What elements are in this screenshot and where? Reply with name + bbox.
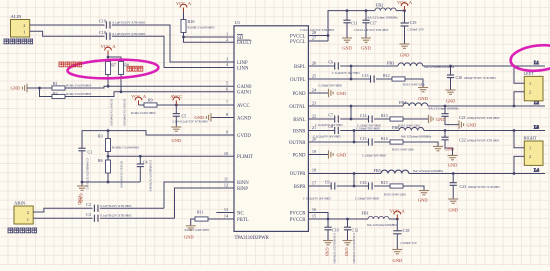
wire RINN xyxy=(164,182,234,208)
ground GND (R12) xyxy=(418,88,428,102)
wire FB5 to L4 xyxy=(409,173,545,175)
svg-text:PVCCL: PVCCL xyxy=(290,34,306,39)
ground GND (PGND19) xyxy=(329,150,347,158)
svg-text:C5: C5 xyxy=(182,114,187,119)
svg-text:VCC_A: VCC_A xyxy=(390,208,406,213)
ground GND (AGND) xyxy=(194,113,211,121)
wire PGND pin24 xyxy=(308,92,328,94)
svg-text:0.1uF/N/25V X7R 0805: 0.1uF/N/25V X7R 0805 xyxy=(113,21,146,25)
svg-text:0.1uF/N/25V X7R 0805: 0.1uF/N/25V X7R 0805 xyxy=(101,204,132,208)
ground GND (C11) xyxy=(342,38,352,50)
svg-text:VCC_A: VCC_A xyxy=(131,94,147,99)
svg-text:RINN: RINN xyxy=(237,181,249,186)
capacitor C8 xyxy=(313,124,341,138)
svg-text:19: 19 xyxy=(312,149,316,154)
wire R13 to ground xyxy=(403,118,429,120)
svg-text:C18: C18 xyxy=(99,30,106,35)
resistor R8 xyxy=(119,62,129,75)
wire PGND pin19 xyxy=(308,154,328,156)
svg-text:6: 6 xyxy=(226,86,228,91)
svg-text:BSNR: BSNR xyxy=(293,129,306,134)
resistor R13 xyxy=(374,113,420,127)
capacitor C17 xyxy=(354,11,389,38)
svg-text:TPA3110D2PWR: TPA3110D2PWR xyxy=(235,236,270,241)
wire FB4 to L2 xyxy=(428,105,545,107)
annotation red text default-no-solder (CJK) xyxy=(59,62,82,67)
ground GND (R14) xyxy=(433,147,454,152)
wire BSPL pin26 to C6 xyxy=(308,65,334,67)
svg-text:LINP: LINP xyxy=(237,61,248,66)
svg-text:FB2: FB2 xyxy=(376,3,383,8)
ground GND (R15) xyxy=(418,191,429,203)
wire R14 to ground xyxy=(403,142,438,147)
svg-text:GND: GND xyxy=(393,258,403,263)
svg-text:C104 0.1uF/25V X7R 0805: C104 0.1uF/25V X7R 0805 xyxy=(354,28,389,32)
wire C3 to RINP drop xyxy=(100,217,175,219)
capacitor C12 xyxy=(344,219,358,241)
svg-text:R100K/1%10W0805: R100K/1%10W0805 xyxy=(188,26,215,30)
svg-text:R10K/1%4W 0805: R10K/1%4W 0805 xyxy=(131,111,156,115)
svg-text:GND: GND xyxy=(418,198,428,203)
wire ALIN pin2 to C19 xyxy=(30,24,105,26)
svg-text:OUTPR: OUTPR xyxy=(290,172,307,177)
svg-text:18: 18 xyxy=(312,168,316,173)
ferrite bead FB4 xyxy=(399,100,459,110)
svg-text:R10K/1%4W 0805: R10K/1%4W 0805 xyxy=(185,228,210,232)
wire R1 to GAIN0 xyxy=(65,86,234,88)
wire C2 to RINN drop xyxy=(100,207,164,209)
capacitor C7 xyxy=(315,113,343,127)
ferrite bead FB1 xyxy=(362,211,398,227)
ground GND (bottom rail) xyxy=(77,182,87,203)
ferrite bead FB6 xyxy=(392,125,432,138)
wire BSNR-OUTNR vertical xyxy=(353,131,355,143)
wire BSPL-OUTPL vertical xyxy=(350,66,352,79)
svg-text:C104MB/25V/X7R0805: C104MB/25V/X7R0805 xyxy=(352,233,356,264)
power VCC_A (above R10) xyxy=(176,1,192,12)
capacitor C5 xyxy=(173,105,209,127)
svg-text:FB6: FB6 xyxy=(392,125,399,130)
svg-text:C12: C12 xyxy=(352,227,359,232)
wire OUTNL pin23 to FB4 xyxy=(308,105,403,107)
resistor R10 xyxy=(181,19,215,33)
capacitor C21 xyxy=(441,106,499,125)
ground GND (C18) xyxy=(392,250,402,264)
svg-text:GND: GND xyxy=(172,138,182,143)
pin numbers U1 left xyxy=(224,32,229,219)
svg-text:GND: GND xyxy=(445,147,455,152)
capacitor C2 xyxy=(86,202,132,212)
svg-text:C15: C15 xyxy=(360,136,367,141)
wire FB2 to VCC_A xyxy=(396,10,404,12)
wire OUTPR pin18 to FB5 xyxy=(308,173,381,175)
capacitor C18 electrolytic 100uF xyxy=(393,219,417,250)
svg-text:C:330pF/50V/0805: C:330pF/50V/0805 xyxy=(355,196,380,200)
svg-text:PGND: PGND xyxy=(292,92,306,97)
svg-text:GND: GND xyxy=(10,86,20,91)
svg-text:GND: GND xyxy=(361,45,371,50)
svg-text:FAULT: FAULT xyxy=(237,41,252,46)
capacitor C1 xyxy=(78,131,92,182)
capacitor C9 xyxy=(303,180,335,201)
svg-text:R6: R6 xyxy=(98,158,103,163)
wire VCC_A to R7 R8 tops xyxy=(107,55,109,61)
capacitor C14 xyxy=(357,113,382,127)
svg-text:C104MB/25V/X7R0805: C104MB/25V/X7R0805 xyxy=(149,160,153,192)
svg-text:C 0.22uF/N 16V 0805: C 0.22uF/N 16V 0805 xyxy=(332,71,360,75)
wire AGND pin8 xyxy=(211,117,234,119)
svg-text:C20: C20 xyxy=(456,75,463,80)
svg-text:5: 5 xyxy=(226,81,228,86)
svg-text:L4: L4 xyxy=(534,168,540,173)
connector ARIN xyxy=(14,201,33,225)
wire BSNL pin22 to C7 xyxy=(308,118,334,120)
wire BSNR pin21 to C8 xyxy=(308,130,334,132)
svg-text:R10: R10 xyxy=(188,19,195,24)
wire GND to R1 xyxy=(27,87,52,89)
svg-text:1000pF/N/50V X7R 0805: 1000pF/N/50V X7R 0805 xyxy=(468,185,501,189)
label right-channel-input (CJK) xyxy=(8,228,37,233)
resistor R15 xyxy=(374,180,406,197)
svg-text:8A/125ohm/100MHz: 8A/125ohm/100MHz xyxy=(368,15,399,19)
svg-text:C17: C17 xyxy=(370,20,377,25)
svg-text:AVCC: AVCC xyxy=(237,104,250,109)
capacitor C18 xyxy=(99,30,146,40)
power AVCC xyxy=(170,94,182,105)
power VCC_A (bottom) xyxy=(390,208,406,219)
wire R11 to PBTL xyxy=(208,218,234,220)
svg-text:C13: C13 xyxy=(362,73,369,78)
svg-text:GND: GND xyxy=(436,117,446,122)
svg-text:C100uF 25V: C100uF 25V xyxy=(401,241,418,245)
svg-text:2: 2 xyxy=(226,37,228,42)
svg-text:R12: R12 xyxy=(383,73,390,78)
svg-text:C 0.22uF/N 16V 0805: C 0.22uF/N 16V 0805 xyxy=(303,196,331,200)
capacitor C13 xyxy=(318,73,374,87)
wire ARIN pin1 to C3 xyxy=(33,217,92,219)
svg-text:C21: C21 xyxy=(459,115,466,120)
capacitor C20 xyxy=(447,66,496,90)
wire ALIN pin1 to C18 xyxy=(30,31,105,36)
ground GND (C10 rotated label) xyxy=(323,241,333,257)
svg-text:L1: L1 xyxy=(534,60,539,65)
svg-text:R100K/1%10W0805: R100K/1%10W0805 xyxy=(122,99,126,126)
svg-text:NC: NC xyxy=(237,211,244,216)
svg-text:22: 22 xyxy=(312,114,316,119)
ferrite bead FB3 xyxy=(387,61,455,69)
pin names U1 left side xyxy=(237,36,253,223)
capacitor C11 xyxy=(300,11,358,38)
wire VCC_A to R9 xyxy=(139,104,145,106)
wire GVDD rail xyxy=(82,131,234,135)
svg-text:R100K/1%10W0805: R100K/1%10W0805 xyxy=(109,99,113,126)
svg-text:VCC_A: VCC_A xyxy=(100,44,116,49)
ground GND (C20) xyxy=(446,90,456,104)
wire OUTNL-BSNL vertical xyxy=(350,106,352,119)
svg-text:VCC_A: VCC_A xyxy=(176,1,192,6)
wire LEFT pin2 to L2 xyxy=(514,92,524,106)
wire R11 left to ground xyxy=(191,219,195,226)
ground GND (left of R1) xyxy=(10,84,27,92)
op-amp U1 TPA3110D2PWR body xyxy=(234,20,308,241)
svg-text:GND: GND xyxy=(184,235,194,240)
svg-text:C:330pF/50V/0805: C:330pF/50V/0805 xyxy=(356,127,381,131)
svg-text:R13: R13 xyxy=(381,113,388,118)
svg-text:BSPL: BSPL xyxy=(294,65,306,70)
svg-text:FB1: FB1 xyxy=(362,211,369,216)
svg-text:1000pF/N/50V X7R 0805: 1000pF/N/50V X7R 0805 xyxy=(467,138,500,142)
svg-text:GND: GND xyxy=(467,122,477,127)
wire bottom rail xyxy=(82,181,140,183)
ferrite bead FB2 xyxy=(368,3,399,20)
capacitor C19 electrolytic 100uF xyxy=(401,11,425,44)
svg-text:PVCCR: PVCCR xyxy=(290,218,307,223)
svg-text:GAIN0: GAIN0 xyxy=(237,85,252,90)
svg-text:C104 0.1uF/25V X7R 0805: C104 0.1uF/25V X7R 0805 xyxy=(300,28,335,32)
wire FB6 to L3 xyxy=(424,130,545,132)
svg-text:C6: C6 xyxy=(328,60,333,65)
wire R15 to ground xyxy=(403,186,424,191)
wire FB3 to L1 xyxy=(423,65,545,67)
svg-text:GND: GND xyxy=(446,99,456,104)
svg-text:OUTNR: OUTNR xyxy=(289,141,306,146)
svg-text:R11: R11 xyxy=(197,210,204,215)
wire C19 to LINP xyxy=(112,25,234,62)
svg-text:C16: C16 xyxy=(360,180,367,185)
svg-text:ALIN: ALIN xyxy=(11,14,23,19)
svg-text:FB3: FB3 xyxy=(387,61,394,66)
capacitor C10 xyxy=(324,219,338,241)
svg-text:2: 2 xyxy=(529,90,531,95)
svg-text:R14: R14 xyxy=(381,136,388,141)
svg-text:1000pF/N/50V X7R 0805: 1000pF/N/50V X7R 0805 xyxy=(464,76,497,80)
svg-text:R9: R9 xyxy=(148,98,153,103)
svg-text:7: 7 xyxy=(226,100,228,105)
svg-text:C23: C23 xyxy=(460,184,467,189)
svg-text:1: 1 xyxy=(529,146,531,151)
wire PVCCL pins to riser xyxy=(308,35,328,37)
svg-text:GND: GND xyxy=(337,91,347,96)
svg-text:3: 3 xyxy=(226,57,228,62)
svg-text:8A/125ohm/100MHz: 8A/125ohm/100MHz xyxy=(413,169,444,173)
svg-text:9: 9 xyxy=(226,130,228,135)
svg-text:10: 10 xyxy=(224,151,228,156)
svg-text:AGND: AGND xyxy=(237,116,251,121)
svg-text:C1: C1 xyxy=(88,150,93,155)
svg-text:23: 23 xyxy=(312,101,316,106)
svg-text:C3: C3 xyxy=(86,212,91,217)
svg-text:R15: R15 xyxy=(381,180,388,185)
resistor R12 xyxy=(376,73,425,86)
wire C9 to snubber xyxy=(337,185,369,187)
svg-text:0.1uF/N/25V X7R 0805: 0.1uF/N/25V X7R 0805 xyxy=(113,32,146,36)
svg-text:U1: U1 xyxy=(235,20,241,25)
power VCC_A (left of R9) xyxy=(131,94,147,105)
svg-text:2: 2 xyxy=(23,23,25,28)
wire PVCCR pins to rail xyxy=(308,213,328,220)
svg-text:11: 11 xyxy=(224,177,228,182)
capacitor C16 xyxy=(355,180,380,200)
svg-text:C22: C22 xyxy=(459,137,466,142)
svg-text:R100K/1%10W0805: R100K/1%10W0805 xyxy=(112,145,139,149)
svg-text:16: 16 xyxy=(312,207,316,212)
svg-text:VCC_A: VCC_A xyxy=(397,0,413,5)
svg-text:LINN: LINN xyxy=(237,66,249,71)
svg-text:RIGHT: RIGHT xyxy=(524,136,538,141)
svg-text:GND: GND xyxy=(344,248,349,257)
capacitor C15 xyxy=(360,136,387,158)
wire R12 to ground xyxy=(405,79,423,88)
power VCC_A (top right) xyxy=(397,0,413,11)
wire PLIMIT row xyxy=(108,155,234,157)
svg-text:ARIN: ARIN xyxy=(14,201,26,206)
wire OUTNR pin20 to snubber xyxy=(308,141,368,143)
resistor R7 xyxy=(106,62,116,75)
svg-text:+C19: +C19 xyxy=(408,20,417,25)
svg-text:C9: C9 xyxy=(325,180,330,185)
ferrite bead FB5 xyxy=(374,168,444,173)
svg-text:1: 1 xyxy=(27,217,29,222)
connector RIGHT xyxy=(524,136,544,166)
power VCC_A (above R7 R8) xyxy=(100,44,116,55)
svg-text:2: 2 xyxy=(529,154,531,159)
connector LEFT xyxy=(524,71,544,101)
svg-text:C8: C8 xyxy=(328,124,333,129)
capacitor C3 xyxy=(86,212,132,222)
wire ARIN pin2 to C2 xyxy=(33,208,92,212)
svg-text:GND: GND xyxy=(325,248,330,257)
ground GND (C22) xyxy=(448,156,458,168)
capacitor C6 xyxy=(328,60,360,76)
wire BSPR pin17 to C9 xyxy=(308,185,331,187)
junction xyxy=(182,36,185,39)
overline SD FAULT xyxy=(237,35,251,40)
wire NC stub pin13 xyxy=(216,212,234,214)
svg-text:GND: GND xyxy=(448,163,458,168)
resistor R3 xyxy=(98,131,139,157)
svg-text:PVCCL: PVCCL xyxy=(290,40,306,45)
svg-text:C 0.22uF/N 16V 0805: C 0.22uF/N 16V 0805 xyxy=(313,134,341,138)
svg-text:FB4: FB4 xyxy=(399,100,407,105)
svg-text:R10/1%4W/1206: R10/1%4W/1206 xyxy=(392,148,414,152)
svg-text:C11: C11 xyxy=(351,20,358,25)
ground GND (C12 rotated label) xyxy=(343,241,353,257)
wire R7 bottom to GAIN0 row xyxy=(107,75,109,87)
svg-text:C:330pF/50V/0805: C:330pF/50V/0805 xyxy=(318,83,343,87)
capacitor C22 xyxy=(441,131,499,156)
svg-text:R100K/1%10W0805: R100K/1%10W0805 xyxy=(120,161,124,188)
wire RIGHT pin2 to L4 xyxy=(514,156,524,173)
ground GND (PGND24) xyxy=(329,89,347,97)
annotation ellipse (do-not-solder circle around R7 R8) xyxy=(67,58,159,80)
svg-text:GND: GND xyxy=(77,196,82,205)
svg-text:PBTL: PBTL xyxy=(237,218,249,223)
ground GND (R11) xyxy=(184,226,196,240)
svg-text:OUTNL: OUTNL xyxy=(289,105,305,110)
svg-text:8A/125ohm/100MHz: 8A/125ohm/100MHz xyxy=(429,107,460,111)
svg-text:BSPR: BSPR xyxy=(294,185,307,190)
ground GND (C23) xyxy=(448,199,458,213)
svg-text:GND: GND xyxy=(194,115,204,120)
svg-text:PVCCR: PVCCR xyxy=(290,211,307,216)
wire FB1 to VCC_A xyxy=(389,218,397,220)
svg-text:1: 1 xyxy=(23,29,25,34)
wire C18 to LINN xyxy=(112,36,234,67)
svg-text:R8: R8 xyxy=(124,63,129,68)
annotation ellipse right (around L1 label) xyxy=(509,43,550,74)
svg-text:8: 8 xyxy=(226,112,228,117)
svg-text:FB5: FB5 xyxy=(374,168,381,173)
svg-text:C7: C7 xyxy=(328,113,333,118)
svg-text:8A/125ohm/100MHz: 8A/125ohm/100MHz xyxy=(401,134,432,138)
svg-text:GVDD: GVDD xyxy=(237,134,251,139)
svg-text:C4: C4 xyxy=(143,160,148,165)
svg-text:2: 2 xyxy=(27,210,29,215)
svg-text:C19: C19 xyxy=(99,19,106,24)
svg-text:8A/125ohm/100MHz: 8A/125ohm/100MHz xyxy=(367,223,398,227)
svg-text:17: 17 xyxy=(312,181,316,186)
svg-text:R10K/1%10W0805: R10K/1%10W0805 xyxy=(66,92,92,96)
svg-text:C:330pF/50V/0805: C:330pF/50V/0805 xyxy=(362,154,387,158)
ground GND (C19) xyxy=(400,44,410,58)
wire R8 bottom to GAIN1 row xyxy=(120,75,122,92)
svg-text:GAIN1: GAIN1 xyxy=(237,91,252,96)
wire L1 to LEFT pin1 xyxy=(514,66,524,83)
svg-text:R10/1%4W/1206: R10/1%4W/1206 xyxy=(384,193,406,197)
svg-text:BSNL: BSNL xyxy=(293,118,305,123)
resistor R9 xyxy=(131,98,157,115)
svg-text:R2: R2 xyxy=(53,91,58,96)
svg-text:C10: C10 xyxy=(332,227,339,232)
svg-text:15: 15 xyxy=(312,214,316,219)
svg-text:PGND: PGND xyxy=(292,153,306,158)
svg-text:L3: L3 xyxy=(534,125,540,130)
pin numbers U1 right xyxy=(312,30,317,219)
svg-text:R10/1%4W/1206: R10/1%4W/1206 xyxy=(398,123,420,127)
svg-text:1000pF/N/50V X7R 0805: 1000pF/N/50V X7R 0805 xyxy=(467,116,500,120)
capacitor C23 xyxy=(450,174,501,200)
svg-text:GND: GND xyxy=(342,45,352,50)
resistor R1 xyxy=(52,81,92,90)
svg-text:25: 25 xyxy=(312,74,316,79)
ground GND (C21 sideways) xyxy=(459,120,476,128)
wire RINP xyxy=(175,188,235,218)
svg-text:GND: GND xyxy=(400,53,410,58)
svg-text:R10/1%4W/1206: R10/1%4W/1206 xyxy=(403,82,425,86)
svg-text:0.1uF/N/25V X7R 0805: 0.1uF/N/25V X7R 0805 xyxy=(101,214,132,218)
svg-text:26: 26 xyxy=(312,61,316,66)
ground GND (C17) xyxy=(361,38,371,50)
label left-channel-input (CJK) xyxy=(4,39,33,44)
pin names U1 right side xyxy=(289,34,306,223)
svg-text:RINP: RINP xyxy=(237,187,248,192)
resistor R6 xyxy=(98,156,111,182)
svg-text:C2: C2 xyxy=(86,202,91,207)
svg-text:+C18: +C18 xyxy=(401,228,410,233)
svg-text:1: 1 xyxy=(226,32,228,37)
annotation red text no-solder (CJK) xyxy=(127,66,143,71)
svg-text:OUTPL: OUTPL xyxy=(290,78,306,83)
svg-text:12: 12 xyxy=(224,183,228,188)
svg-text:GND: GND xyxy=(337,152,347,157)
wire C8 to FB6 xyxy=(340,130,399,132)
svg-text:27: 27 xyxy=(312,36,316,41)
wire L3 to RIGHT pin1 xyxy=(514,131,524,148)
svg-text:1: 1 xyxy=(529,81,531,86)
svg-text:R1: R1 xyxy=(53,81,58,86)
svg-text:GND: GND xyxy=(448,208,458,213)
wire OUTPR-BSPR vertical xyxy=(353,174,355,187)
